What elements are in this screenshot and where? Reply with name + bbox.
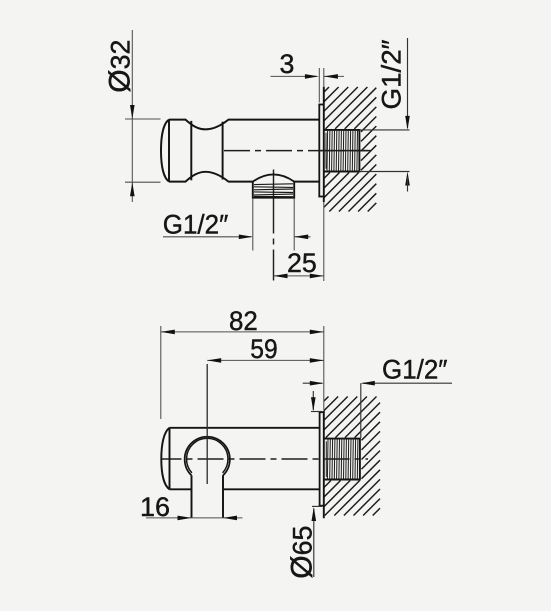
wall inlet thread G1/2 (bottom view) [324, 439, 360, 480]
cap dome arc [161, 120, 169, 182]
wall face line (top view) [323, 87, 325, 203]
top edge [170, 427, 320, 429]
dimension 3 (top view, plate thickness) [271, 49, 345, 102]
dimension 25 (top view) [274, 202, 324, 281]
bottom edge interrupted by holder fork [170, 488, 192, 490]
knob waist right edge line [222, 122, 224, 180]
wall face line (bottom view) [323, 411, 325, 518]
lower pointer [313, 509, 315, 578]
wall plate (3mm escutcheon, top view) [318, 104, 323, 197]
wall hatching (bottom view) [324, 397, 380, 516]
body outline (top view) [161, 120, 319, 182]
wall inlet thread G1/2 (top view) [324, 130, 359, 172]
svg-text:59: 59 [250, 334, 277, 364]
outlet thread G1/2 (top view) [253, 182, 294, 198]
outlet boss intersection arc (top view) [253, 174, 294, 181]
wall plate (bottom view) [319, 412, 324, 507]
dimension Ø65 (bottom view) [286, 391, 323, 579]
svg-text:G1/2″: G1/2″ [163, 210, 229, 240]
holder fork legs (bottom view) [192, 475, 224, 518]
dimension Ø32 (top view) [104, 30, 161, 202]
body outline (bottom view) [161, 428, 319, 490]
upper pointer [312, 391, 314, 410]
dimension 16 (bottom view) [140, 492, 243, 522]
knob band line [190, 121, 192, 180]
body centerline (bottom view) [161, 458, 368, 460]
bottom edge with waist, interrupted by outlet [169, 172, 253, 182]
ring center vertical line (bottom view) [206, 364, 208, 484]
label G1/2 inlet (bottom view) [303, 355, 452, 439]
cap joint line [168, 120, 170, 182]
svg-text:G1/2″: G1/2″ [382, 355, 448, 385]
holder ring inner arc (bottom view) [187, 438, 228, 473]
dimension 82 (bottom view) [161, 306, 324, 419]
svg-text:25: 25 [287, 248, 317, 278]
outlet centerline (top view, vertical) [273, 170, 275, 281]
cap joint line [169, 428, 171, 490]
body centerline solid across wall thread (top view) [320, 150, 368, 152]
label G1/2 outlet with leader (top view) [163, 199, 311, 251]
outlet edge extension lines [252, 199, 254, 251]
dimension 59 (bottom view) [207, 334, 324, 364]
svg-text:Ø32: Ø32 [104, 40, 137, 93]
body centerline (top view) [224, 150, 371, 152]
svg-text:3: 3 [280, 49, 295, 79]
top edge with waist [169, 120, 319, 130]
dimension G1/2 inlet (top view, rotated label at right) [359, 38, 409, 192]
holder ring outer arc (bottom view) [185, 437, 230, 476]
wall hatching (top view) [324, 87, 377, 212]
svg-text:G1/2″: G1/2″ [377, 40, 407, 110]
cap dome arc [161, 428, 169, 490]
